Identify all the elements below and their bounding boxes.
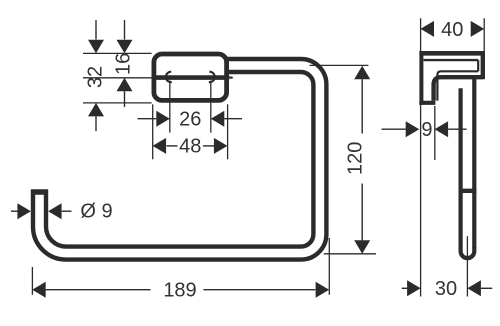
- wire end hook right: [209, 72, 215, 83]
- dim 48 arrow right: [214, 138, 228, 154]
- dim 16 arrow down: [117, 40, 133, 54]
- dim 26 arrow left: [156, 111, 170, 127]
- wall mounting block (front view): [154, 54, 227, 100]
- dim 189 arrow left: [32, 282, 46, 298]
- dim 30 arrow right: [467, 280, 481, 296]
- svg-text:30: 30: [435, 278, 457, 300]
- dim 189 line right: [203, 289, 315, 291]
- ring wire seen from side: right edge: [472, 78, 476, 249]
- bracket top edge: [419, 51, 484, 56]
- dim 120 line upper: [361, 79, 363, 133]
- svg-text:Ø 9: Ø 9: [80, 201, 112, 223]
- dim 26 leader right: [224, 118, 242, 120]
- dim 48 arrow left: [153, 138, 167, 154]
- dim 120 line lower: [361, 184, 363, 241]
- dim 9 leader right: [448, 128, 467, 130]
- dim 120 extension bottom: [324, 253, 376, 255]
- bracket underside and front lip: [434, 77, 483, 101]
- dim 30 arrow left: [407, 280, 421, 296]
- dim 120 arrow bottom: [354, 240, 370, 254]
- extension line block top left: [83, 52, 152, 54]
- dia 9 arrow left: [17, 203, 31, 219]
- svg-text:189: 189: [163, 280, 196, 302]
- dim 189 extension right: [328, 238, 330, 295]
- bracket foot bottom: [419, 101, 435, 105]
- dia 9 leader left: [11, 210, 18, 212]
- bracket inner top line: [424, 59, 479, 61]
- dim 30 extension (wire axis): [466, 236, 468, 296]
- dia 9 leader right: [62, 210, 72, 212]
- extension line block bottom left: [83, 102, 152, 104]
- dim 26 leader left: [138, 118, 157, 120]
- dim 16 leader top: [124, 20, 126, 39]
- dim 48 line left: [167, 145, 178, 147]
- towel ring wire outline (front view): [40, 66, 320, 254]
- bracket inner right line: [477, 60, 479, 71]
- svg-text:26: 26: [179, 109, 201, 131]
- dim 189 line left: [46, 289, 151, 291]
- dim 120 arrow top: [354, 66, 370, 80]
- dim 30 leader left: [402, 287, 407, 289]
- dim 16 leader bottom: [124, 91, 126, 107]
- dim 120 extension top: [310, 64, 369, 66]
- dim 48 line right: [203, 145, 214, 147]
- bracket right edge: [481, 51, 485, 79]
- dim 32 arrow down: [88, 40, 104, 54]
- svg-text:40: 40: [441, 19, 463, 41]
- block seam line: [152, 75, 229, 80]
- dim 189 extension left: [31, 267, 33, 295]
- dim 32 leader bottom: [95, 116, 97, 131]
- wire end cap line (side view): [459, 189, 477, 193]
- bracket wall plate (side view): [419, 51, 423, 105]
- svg-text:32: 32: [85, 66, 107, 88]
- extension line block right edge: [227, 104, 229, 159]
- extension line hook right: [210, 81, 212, 133]
- dim 26 arrow right: [211, 111, 225, 127]
- dim 40 arrow left: [421, 21, 435, 37]
- wire end hook left: [166, 72, 172, 83]
- dim 189 arrow right: [316, 282, 330, 298]
- dim 30 leader right: [481, 287, 492, 289]
- dim 16 arrow up: [117, 78, 133, 92]
- dim 9 leader left: [382, 128, 406, 130]
- dim 32 arrow up: [88, 103, 104, 117]
- dim 40 extension right: [483, 18, 485, 52]
- dia 9 arrow right: [48, 203, 62, 219]
- dim 9 extension right: [434, 106, 436, 160]
- dim 32 leader top: [95, 20, 97, 39]
- wall extension line (side view): [420, 18, 422, 296]
- ring wire seen from side: left edge: [459, 88, 463, 248]
- svg-text:48: 48: [179, 136, 201, 158]
- extension line block left edge: [152, 104, 154, 159]
- svg-text:9: 9: [421, 119, 432, 141]
- extension line wire axis left: [83, 77, 152, 79]
- dim 9 arrow left: [406, 121, 420, 137]
- dim 40 arrow right: [471, 21, 485, 37]
- svg-text:120: 120: [344, 142, 366, 175]
- ring wire rounded bottom: [461, 247, 475, 258]
- svg-text:16: 16: [112, 53, 134, 75]
- bracket inner underside line: [437, 71, 478, 100]
- dim 9 arrow right: [435, 121, 449, 137]
- extension line hook left: [169, 81, 171, 133]
